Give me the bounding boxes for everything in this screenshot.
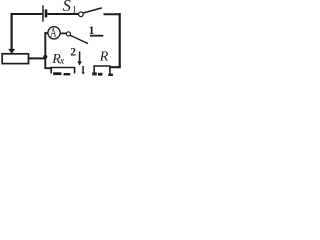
svg-text:S: S bbox=[63, 0, 71, 15]
svg-text:1: 1 bbox=[89, 23, 95, 37]
svg-text:x: x bbox=[59, 56, 65, 67]
svg-text:A: A bbox=[50, 26, 56, 40]
svg-text:2: 2 bbox=[70, 47, 76, 59]
svg-text:R: R bbox=[99, 50, 109, 65]
svg-text:1: 1 bbox=[72, 5, 77, 15]
